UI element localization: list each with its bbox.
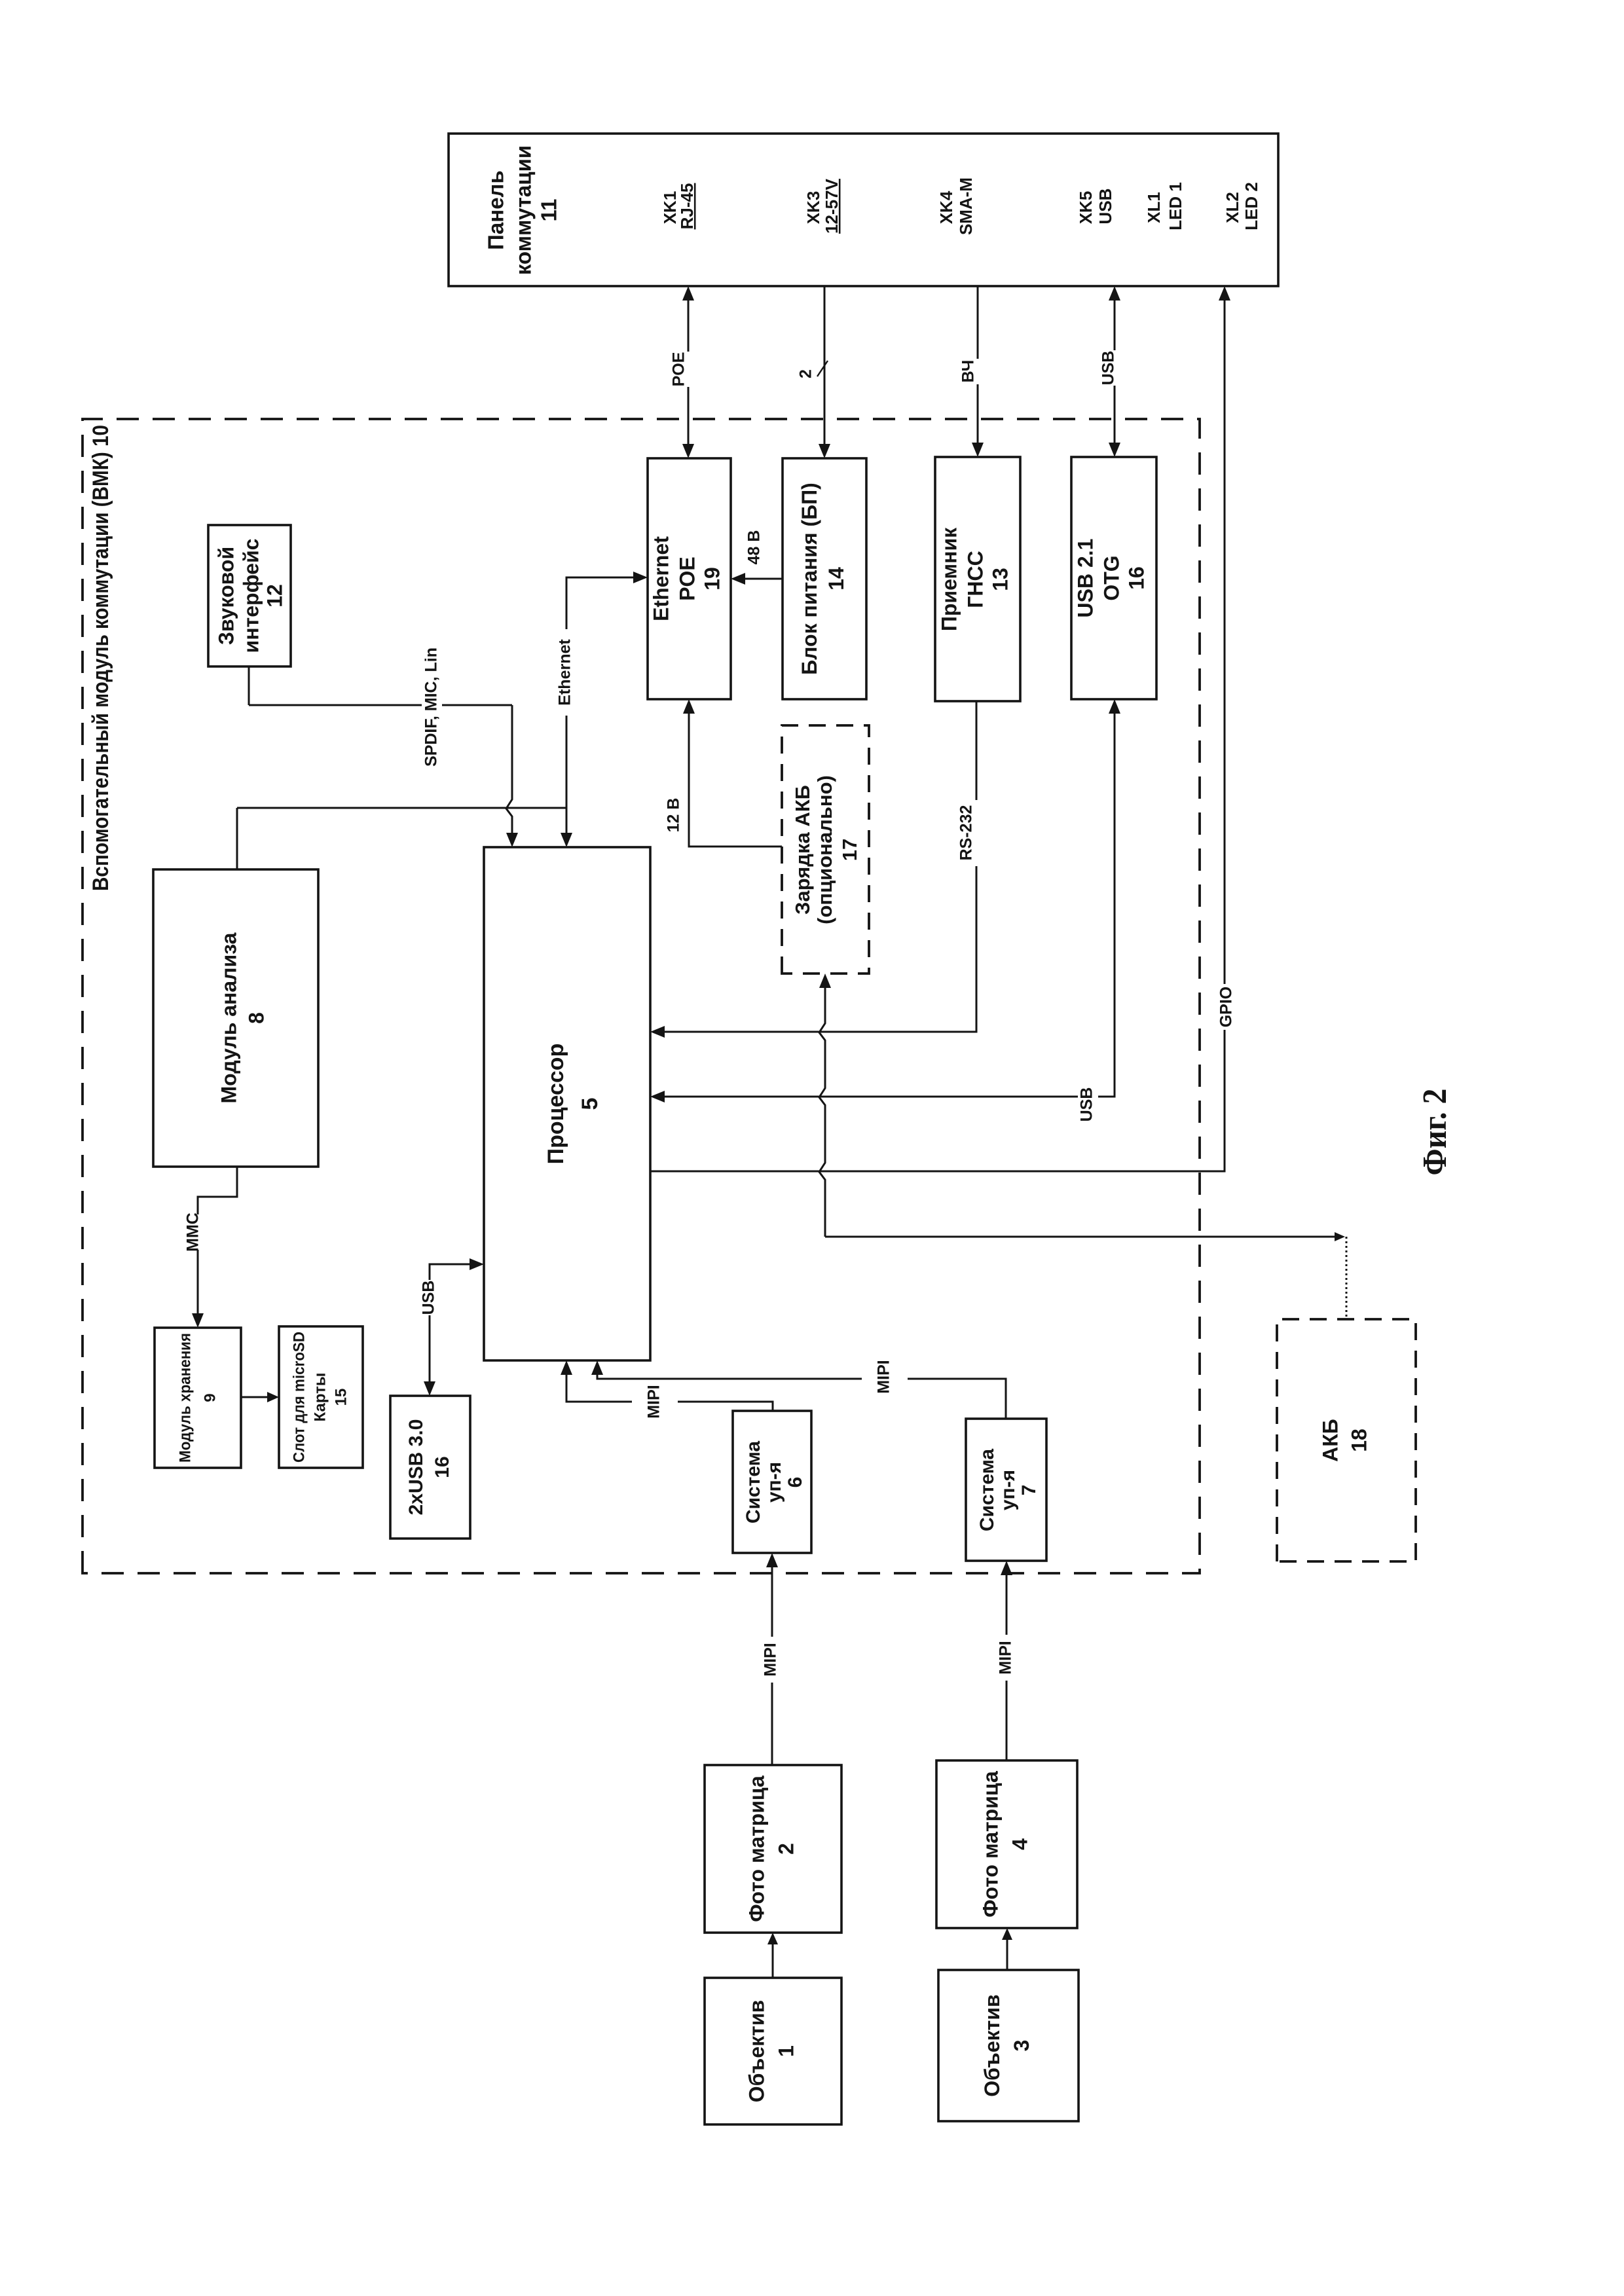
block Processor 5 bbox=[484, 847, 650, 1360]
svg-text:12 В: 12 В bbox=[665, 798, 683, 833]
svg-text:16: 16 bbox=[1124, 566, 1148, 590]
svg-text:SPDIF, MIC, Lin: SPDIF, MIC, Lin bbox=[422, 647, 441, 767]
block Zaryadka AKB (optsionalno) 17 (charger, dashed) bbox=[782, 725, 869, 974]
wire USB: USB 2.1 OTG 16 to processor 5 (bidirectional) bbox=[650, 699, 1120, 1122]
module label Vspomogatelnyi modul kommutacii (BMK) 10 bbox=[88, 425, 113, 891]
svg-text:Приемник: Приемник bbox=[937, 527, 961, 631]
svg-text:Звуковой: Звуковой bbox=[214, 547, 238, 645]
svg-text:XK4: XK4 bbox=[936, 191, 956, 224]
svg-text:12-57V: 12-57V bbox=[822, 178, 841, 233]
block AKB 18 (battery, dashed) bbox=[1277, 1319, 1416, 1561]
svg-text:уп-я: уп-я bbox=[764, 1462, 785, 1503]
block Obyektiv 1 (lens) bbox=[705, 1978, 841, 2124]
panel title Panel kommutacii 11 bbox=[484, 145, 561, 275]
svg-text:Слот для microSD: Слот для microSD bbox=[290, 1332, 308, 1463]
block Sistema upravleniya 6 bbox=[733, 1411, 811, 1553]
svg-text:Процессор: Процессор bbox=[544, 1044, 568, 1165]
svg-text:5: 5 bbox=[578, 1098, 602, 1110]
block Priemnik GNSS 13 bbox=[935, 457, 1020, 701]
block Foto matritsa 2 (photo sensor) bbox=[705, 1765, 841, 1933]
text Zvukovoi interfeis 12 bbox=[214, 539, 286, 653]
svg-text:2: 2 bbox=[774, 1843, 798, 1855]
svg-text:ГНСС: ГНСС bbox=[963, 551, 987, 608]
wire: storage module 9 to microSD slot 15 bbox=[241, 1392, 279, 1402]
wire SPDIF, MIC, Lin: audio interface 12 to processor 5 (jog-hop over module-8 wire) bbox=[249, 629, 518, 847]
port XK1 RJ-45 bbox=[660, 183, 697, 230]
text Sistema up-ya 7 bbox=[976, 1449, 1040, 1532]
text USB 2.1 OTG 16 bbox=[1073, 539, 1148, 618]
svg-text:12: 12 bbox=[263, 584, 286, 608]
port XK3 12-57V bbox=[803, 178, 841, 233]
svg-text:15: 15 bbox=[332, 1389, 350, 1406]
text Zaryadka AKB (optsionalno) 17 bbox=[791, 775, 861, 924]
svg-text:2xUSB 3.0: 2xUSB 3.0 bbox=[405, 1419, 427, 1516]
dashed module border (BMK) 10 bbox=[83, 419, 1200, 1573]
svg-text:Модуль хранения: Модуль хранения bbox=[176, 1333, 194, 1463]
svg-text:ВЧ: ВЧ bbox=[959, 360, 978, 383]
svg-text:Панель: Панель bbox=[484, 170, 508, 250]
svg-text:уп-я: уп-я bbox=[997, 1470, 1019, 1510]
svg-text:коммутации: коммутации bbox=[511, 145, 536, 275]
svg-text:Карты: Карты bbox=[311, 1373, 329, 1422]
svg-text:7: 7 bbox=[1018, 1485, 1040, 1496]
svg-text:16: 16 bbox=[432, 1456, 453, 1478]
block Modul khraneniya 9 (storage module) bbox=[155, 1328, 241, 1468]
svg-text:11: 11 bbox=[537, 199, 561, 222]
svg-text:17: 17 bbox=[838, 839, 861, 861]
svg-text:USB 2.1: USB 2.1 bbox=[1073, 539, 1097, 618]
svg-text:Ethernet: Ethernet bbox=[556, 639, 574, 706]
svg-text:MIPI: MIPI bbox=[762, 1643, 780, 1676]
svg-text:Модуль анализа: Модуль анализа bbox=[217, 932, 240, 1103]
svg-text:MIPI: MIPI bbox=[645, 1385, 663, 1418]
block Zvukovoi interfeis 12 (audio interface) bbox=[208, 525, 291, 666]
block Obyektiv 3 (lens) bbox=[938, 1970, 1079, 2121]
wire GPIO: processor 5 to panel XL2 LED 2 bbox=[650, 286, 1237, 1171]
svg-text:Вспомогательный модуль коммута: Вспомогательный модуль коммутации (ВМК) … bbox=[88, 425, 113, 891]
svg-text:АКБ: АКБ bbox=[1318, 1419, 1342, 1462]
wire from analysis module 8 joining Ethernet line bbox=[237, 808, 567, 869]
svg-text:USB: USB bbox=[1096, 189, 1115, 225]
port XK4 SMA-M bbox=[936, 177, 976, 235]
port XL2 LED 2 bbox=[1223, 182, 1261, 230]
wire USB: 2xUSB 3.0 16 to processor 5 (bidirectional) bbox=[419, 1258, 484, 1396]
svg-text:OTG: OTG bbox=[1099, 555, 1123, 600]
svg-text:Система: Система bbox=[743, 1441, 764, 1524]
svg-text:3: 3 bbox=[1010, 2040, 1033, 2052]
svg-text:MIPI: MIPI bbox=[997, 1641, 1015, 1674]
port XK5 USB bbox=[1076, 189, 1115, 225]
svg-text:POE: POE bbox=[670, 352, 688, 387]
svg-text:4: 4 bbox=[1008, 1838, 1031, 1850]
svg-text:MMC: MMC bbox=[184, 1212, 202, 1252]
wire RS-232: GNSS receiver 13 to processor 5 bbox=[650, 701, 978, 1038]
svg-text:6: 6 bbox=[784, 1477, 806, 1488]
block Ethernet POE 19 bbox=[648, 458, 731, 699]
svg-text:13: 13 bbox=[988, 568, 1012, 591]
wire Ethernet: processor 5 to Ethernet POE 19 bbox=[555, 572, 648, 847]
wire USB: panel XK5 to USB 2.1 OTG 16 (bidirectional) bbox=[1099, 286, 1120, 457]
svg-text:POE: POE bbox=[675, 556, 699, 601]
wire MIPI: control system 7 to processor 5 bbox=[591, 1360, 1006, 1419]
wire battery feed: AKB 18 to charger 17 (hops over RS-232, USB, GPIO wires) bbox=[819, 974, 1346, 1319]
svg-text:Система: Система bbox=[976, 1449, 998, 1532]
svg-text:XL1: XL1 bbox=[1144, 192, 1164, 223]
svg-text:XK3: XK3 bbox=[803, 191, 823, 225]
svg-text:Зарядка АКБ: Зарядка АКБ bbox=[791, 785, 814, 915]
svg-text:SMA-M: SMA-M bbox=[956, 177, 976, 235]
svg-text:Фиг. 2: Фиг. 2 bbox=[1416, 1089, 1454, 1176]
svg-text:18: 18 bbox=[1347, 1429, 1371, 1452]
text Priemnik GNSS 13 bbox=[937, 527, 1012, 631]
svg-text:8: 8 bbox=[244, 1012, 268, 1024]
svg-text:USB: USB bbox=[420, 1281, 438, 1315]
svg-text:интерфейс: интерфейс bbox=[239, 539, 263, 653]
svg-text:Объектив: Объектив bbox=[980, 1994, 1004, 2096]
block Foto matritsa 4 (photo sensor) bbox=[936, 1760, 1077, 1928]
wire 12 V: charger 17 to Ethernet POE 19 bbox=[664, 699, 782, 847]
wire 2-conductor power: panel XK3 to power supply 14, bus slash '2' bbox=[796, 286, 830, 458]
svg-text:Блок питания (БП): Блок питания (БП) bbox=[798, 483, 821, 675]
svg-text:MIPI: MIPI bbox=[875, 1360, 893, 1393]
svg-text:Ethernet: Ethernet bbox=[649, 536, 673, 621]
wire MIPI: photo sensor 2 to control system 6 bbox=[761, 1553, 781, 1765]
block Blok pitaniya (BP) 14 bbox=[783, 458, 866, 699]
svg-text:Фото матрица: Фото матрица bbox=[978, 1771, 1002, 1918]
svg-text:1: 1 bbox=[774, 2045, 798, 2057]
text Sistema up-ya 6 bbox=[743, 1441, 806, 1524]
port XL1 LED 1 bbox=[1144, 182, 1185, 230]
svg-text:RJ-45: RJ-45 bbox=[677, 183, 697, 230]
figure caption Fig. 2 bbox=[1416, 1089, 1454, 1176]
svg-text:(опционально): (опционально) bbox=[813, 775, 836, 924]
svg-text:XL2: XL2 bbox=[1223, 192, 1242, 223]
wire: lens 1 to photo sensor 2 bbox=[767, 1933, 778, 1978]
block Sistema upravleniya 7 bbox=[966, 1419, 1046, 1561]
wire 48 V: power supply 14 to Ethernet POE 19 bbox=[731, 530, 783, 585]
svg-text:Объектив: Объектив bbox=[745, 2000, 768, 2102]
block 2xUSB 3.0 16 bbox=[390, 1396, 470, 1539]
wire: lens 3 to photo sensor 4 bbox=[1002, 1928, 1012, 1970]
wire MMC: analysis module 8 to storage module 9 bbox=[183, 1167, 237, 1328]
svg-text:USB: USB bbox=[1099, 351, 1118, 386]
svg-text:19: 19 bbox=[700, 567, 724, 591]
svg-text:Фото матрица: Фото матрица bbox=[745, 1776, 768, 1922]
svg-text:USB: USB bbox=[1078, 1087, 1096, 1122]
block Panel kommutacii 11 (patch panel) bbox=[449, 134, 1278, 286]
svg-text:XK5: XK5 bbox=[1076, 191, 1096, 225]
wire MIPI: control system 6 to processor 5 bbox=[561, 1360, 773, 1419]
svg-text:9: 9 bbox=[201, 1393, 219, 1402]
svg-text:48 В: 48 В bbox=[745, 530, 764, 565]
text Ethernet POE 19 bbox=[649, 536, 724, 621]
block USB 2.1 OTG 16 bbox=[1071, 457, 1156, 699]
block Slot dlya microSD karty 15 bbox=[279, 1326, 363, 1468]
svg-text:RS-232: RS-232 bbox=[957, 805, 976, 861]
wire VCh (RF): panel XK4 to GNSS receiver 13 bbox=[959, 286, 984, 457]
block Modul analiza 8 (analysis module) bbox=[153, 869, 318, 1167]
svg-text:14: 14 bbox=[824, 567, 848, 591]
svg-text:2: 2 bbox=[797, 369, 815, 378]
wire POE: panel XK1 to Ethernet POE 19 (bidirectional) bbox=[669, 286, 694, 458]
wire MIPI: photo sensor 4 to control system 7 bbox=[997, 1561, 1017, 1760]
svg-text:GPIO: GPIO bbox=[1217, 987, 1236, 1028]
svg-text:LED 1: LED 1 bbox=[1166, 182, 1185, 230]
svg-text:LED 2: LED 2 bbox=[1242, 182, 1261, 230]
